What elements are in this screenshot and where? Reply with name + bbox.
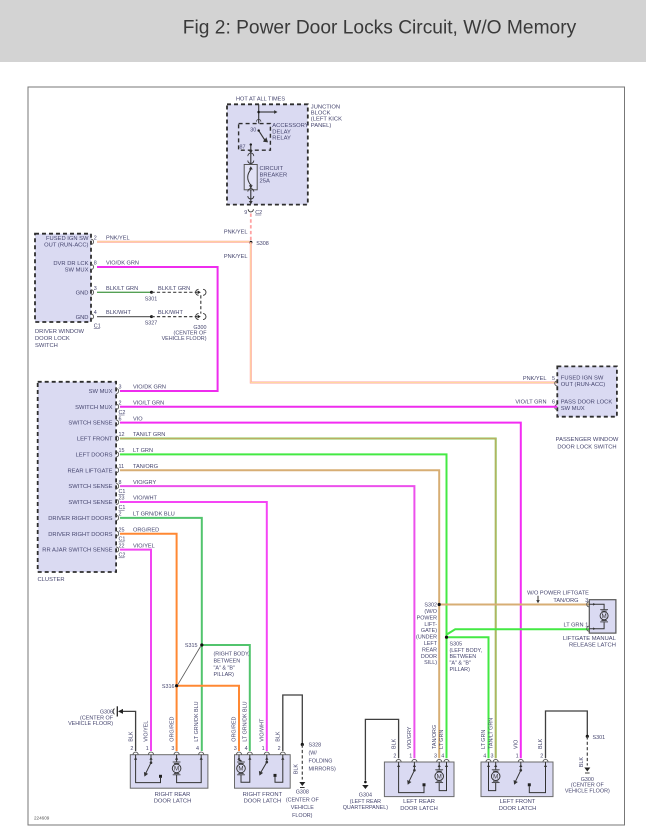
svg-text:DVR DR LCK: DVR DR LCK bbox=[53, 261, 88, 267]
svg-text:BLK: BLK bbox=[128, 731, 134, 742]
svg-text:FLOOR): FLOOR) bbox=[292, 813, 313, 819]
svg-text:4: 4 bbox=[441, 753, 444, 759]
svg-text:1: 1 bbox=[146, 746, 149, 752]
svg-text:LEFT: LEFT bbox=[424, 641, 438, 647]
svg-text:BLK: BLK bbox=[579, 757, 585, 768]
svg-text:25A: 25A bbox=[260, 179, 270, 185]
svg-text:RIGHT REAR: RIGHT REAR bbox=[155, 792, 191, 798]
svg-text:DOOR: DOOR bbox=[421, 654, 437, 660]
svg-text:BLK/LT GRN: BLK/LT GRN bbox=[158, 286, 190, 292]
svg-text:"A" & "B": "A" & "B" bbox=[450, 661, 472, 667]
svg-text:DRIVER WINDOW: DRIVER WINDOW bbox=[35, 329, 84, 335]
svg-text:(CENTER OF: (CENTER OF bbox=[286, 797, 320, 803]
svg-text:SWITCH SENSE: SWITCH SENSE bbox=[68, 484, 112, 490]
svg-text:RELEASE LATCH: RELEASE LATCH bbox=[569, 642, 616, 648]
svg-text:(UNDER: (UNDER bbox=[416, 635, 437, 641]
svg-text:23: 23 bbox=[119, 496, 125, 502]
svg-text:2: 2 bbox=[94, 235, 97, 241]
svg-text:VIO/YEL: VIO/YEL bbox=[133, 543, 155, 549]
svg-text:LIFT-: LIFT- bbox=[424, 622, 437, 628]
svg-text:VEHICLE FLOOR): VEHICLE FLOOR) bbox=[68, 721, 113, 727]
svg-text:(LEFT KICK: (LEFT KICK bbox=[311, 117, 342, 123]
svg-text:1: 1 bbox=[262, 746, 265, 752]
svg-text:4: 4 bbox=[196, 746, 199, 752]
svg-text:FOLDING: FOLDING bbox=[309, 759, 333, 765]
svg-text:DRIVER RIGHT DOORS: DRIVER RIGHT DOORS bbox=[48, 516, 112, 522]
svg-text:S301: S301 bbox=[145, 296, 158, 302]
svg-text:VEHICLE: VEHICLE bbox=[291, 805, 314, 811]
svg-text:PNK/YEL: PNK/YEL bbox=[224, 229, 248, 235]
svg-text:8: 8 bbox=[119, 480, 122, 486]
svg-text:GND: GND bbox=[76, 291, 89, 297]
svg-text:ORG/RED: ORG/RED bbox=[232, 716, 238, 741]
svg-text:11: 11 bbox=[119, 464, 125, 470]
svg-text:(W/O: (W/O bbox=[424, 609, 437, 615]
svg-text:HOT AT ALL TIMES: HOT AT ALL TIMES bbox=[236, 97, 285, 103]
svg-text:M: M bbox=[238, 766, 243, 773]
svg-text:GATE): GATE) bbox=[421, 628, 437, 634]
svg-text:3: 3 bbox=[234, 746, 237, 752]
svg-text:BLK/WHT: BLK/WHT bbox=[106, 310, 131, 316]
svg-text:BLOCK: BLOCK bbox=[311, 111, 331, 117]
svg-text:PNK/YEL: PNK/YEL bbox=[523, 376, 547, 382]
svg-text:LT GRN/DK BLU: LT GRN/DK BLU bbox=[194, 701, 200, 741]
svg-text:OUT (RUN-ACC): OUT (RUN-ACC) bbox=[561, 382, 605, 388]
svg-text:2: 2 bbox=[540, 753, 543, 759]
svg-text:VIO/GRY: VIO/GRY bbox=[133, 480, 156, 486]
svg-text:BLK: BLK bbox=[294, 764, 300, 775]
svg-text:DELAY: DELAY bbox=[272, 129, 291, 135]
svg-text:G308: G308 bbox=[296, 790, 309, 796]
svg-text:2: 2 bbox=[393, 753, 396, 759]
svg-text:(RIGHT BODY,: (RIGHT BODY, bbox=[214, 652, 251, 658]
svg-text:(LEFT REAR: (LEFT REAR bbox=[350, 799, 381, 805]
svg-text:87: 87 bbox=[240, 144, 246, 150]
svg-text:SW MUX: SW MUX bbox=[89, 389, 113, 395]
svg-text:TAN/ORG: TAN/ORG bbox=[133, 464, 158, 470]
svg-text:6: 6 bbox=[552, 400, 555, 406]
svg-text:DOOR LATCH: DOOR LATCH bbox=[244, 799, 282, 805]
svg-text:OUT (RUN-ACC): OUT (RUN-ACC) bbox=[44, 243, 88, 249]
svg-text:M: M bbox=[493, 773, 498, 780]
svg-text:TAN/ORG: TAN/ORG bbox=[553, 598, 578, 604]
svg-text:LIFTGATE MANUAL: LIFTGATE MANUAL bbox=[563, 636, 617, 642]
svg-text:12: 12 bbox=[119, 432, 125, 438]
svg-text:2: 2 bbox=[130, 746, 133, 752]
svg-text:1: 1 bbox=[516, 753, 519, 759]
svg-text:(W/: (W/ bbox=[309, 751, 318, 757]
svg-text:M: M bbox=[602, 613, 607, 620]
svg-text:3: 3 bbox=[94, 286, 97, 292]
svg-text:PASSENGER WINDOW: PASSENGER WINDOW bbox=[556, 437, 619, 443]
svg-text:QUARTERPANEL): QUARTERPANEL) bbox=[343, 805, 389, 811]
svg-text:VEHICLE FLOOR): VEHICLE FLOOR) bbox=[565, 788, 610, 794]
svg-text:ACCESSORY: ACCESSORY bbox=[272, 123, 308, 129]
svg-text:"A" & "B": "A" & "B" bbox=[214, 665, 236, 671]
svg-text:BLK: BLK bbox=[538, 738, 544, 749]
svg-text:CIRCUIT: CIRCUIT bbox=[260, 166, 284, 172]
svg-text:3: 3 bbox=[119, 385, 122, 391]
svg-text:SILL): SILL) bbox=[424, 660, 437, 666]
svg-text:SWITCH SENSE: SWITCH SENSE bbox=[68, 421, 112, 427]
svg-text:LT GRN: LT GRN bbox=[133, 448, 153, 454]
svg-text:5: 5 bbox=[552, 376, 555, 382]
svg-text:S308: S308 bbox=[256, 241, 269, 247]
svg-text:1: 1 bbox=[409, 753, 412, 759]
svg-text:4: 4 bbox=[245, 746, 248, 752]
svg-text:S315: S315 bbox=[185, 643, 198, 649]
svg-text:LEFT FRONT: LEFT FRONT bbox=[500, 799, 536, 805]
svg-text:4: 4 bbox=[483, 753, 486, 759]
svg-text:M: M bbox=[174, 766, 179, 773]
svg-text:BLK: BLK bbox=[391, 738, 397, 749]
svg-text:TAN/LT GRN: TAN/LT GRN bbox=[133, 432, 165, 438]
svg-text:JUNCTION: JUNCTION bbox=[311, 104, 340, 110]
svg-text:SW MUX: SW MUX bbox=[561, 406, 585, 412]
svg-text:(LEFT BODY,: (LEFT BODY, bbox=[450, 648, 483, 654]
svg-text:REAR LIFTGATE: REAR LIFTGATE bbox=[68, 468, 113, 474]
svg-text:VIO/GRY: VIO/GRY bbox=[407, 726, 413, 749]
svg-text:2: 2 bbox=[119, 401, 122, 407]
svg-text:PILLAR): PILLAR) bbox=[214, 672, 235, 678]
svg-text:MIRRORS): MIRRORS) bbox=[309, 767, 336, 773]
svg-text:LT GRN: LT GRN bbox=[439, 730, 445, 749]
svg-text:2: 2 bbox=[278, 746, 281, 752]
svg-text:S328: S328 bbox=[309, 743, 322, 749]
svg-text:S327: S327 bbox=[145, 320, 158, 326]
svg-text:ORG/RED: ORG/RED bbox=[133, 527, 159, 533]
svg-text:6: 6 bbox=[119, 416, 122, 422]
svg-text:2: 2 bbox=[119, 512, 122, 518]
svg-text:VIO/WHT: VIO/WHT bbox=[133, 496, 158, 502]
svg-text:PNK/YEL: PNK/YEL bbox=[106, 235, 130, 241]
svg-text:FUSED IGN SW: FUSED IGN SW bbox=[561, 376, 604, 382]
svg-text:VIO/LT GRN: VIO/LT GRN bbox=[133, 401, 164, 407]
svg-text:PILLAR): PILLAR) bbox=[450, 667, 471, 673]
svg-text:DOOR LATCH: DOOR LATCH bbox=[499, 806, 537, 812]
svg-text:VIO/DK GRN: VIO/DK GRN bbox=[133, 385, 166, 391]
svg-text:15: 15 bbox=[119, 448, 125, 454]
svg-text:SW MUX: SW MUX bbox=[65, 268, 89, 274]
svg-text:PNK/YEL: PNK/YEL bbox=[224, 254, 248, 260]
svg-text:BETWEEN: BETWEEN bbox=[214, 658, 241, 664]
svg-text:TAN/LT GRN: TAN/LT GRN bbox=[488, 718, 494, 749]
svg-text:LT GRN: LT GRN bbox=[564, 623, 584, 629]
svg-text:30: 30 bbox=[250, 127, 256, 133]
svg-text:DOOR LOCK SWITCH: DOOR LOCK SWITCH bbox=[557, 444, 616, 450]
svg-text:REAR: REAR bbox=[422, 647, 437, 653]
svg-text:25: 25 bbox=[119, 527, 125, 533]
svg-text:DOOR LATCH: DOOR LATCH bbox=[400, 806, 438, 812]
svg-text:VIO/DK GRN: VIO/DK GRN bbox=[106, 261, 139, 267]
svg-text:LT GRN/DK BLU: LT GRN/DK BLU bbox=[243, 701, 249, 741]
svg-text:RELAY: RELAY bbox=[272, 136, 291, 142]
svg-text:VIO/WHT: VIO/WHT bbox=[260, 718, 266, 742]
svg-text:W/O POWER LIFTGATE: W/O POWER LIFTGATE bbox=[527, 590, 589, 596]
svg-text:3: 3 bbox=[434, 753, 437, 759]
svg-text:S316: S316 bbox=[162, 684, 175, 690]
svg-text:S301: S301 bbox=[593, 735, 606, 741]
svg-text:9: 9 bbox=[244, 210, 247, 216]
svg-text:BLK/LT GRN: BLK/LT GRN bbox=[106, 286, 138, 292]
svg-text:LT GRN: LT GRN bbox=[481, 730, 487, 749]
svg-text:VEHICLE FLOOR): VEHICLE FLOOR) bbox=[162, 336, 207, 342]
svg-text:22: 22 bbox=[119, 543, 125, 549]
svg-text:PASS DOOR LOCK: PASS DOOR LOCK bbox=[561, 399, 613, 405]
svg-text:BETWEEN: BETWEEN bbox=[450, 654, 477, 660]
svg-text:SWITCH MUX: SWITCH MUX bbox=[75, 405, 112, 411]
svg-text:DOOR LOCK: DOOR LOCK bbox=[35, 336, 70, 342]
svg-text:M: M bbox=[437, 773, 442, 780]
svg-text:GND: GND bbox=[76, 315, 89, 321]
svg-text:S302: S302 bbox=[424, 603, 437, 609]
svg-text:224609: 224609 bbox=[34, 816, 50, 821]
svg-text:FUSED IGN SW: FUSED IGN SW bbox=[46, 236, 89, 242]
svg-text:PANEL): PANEL) bbox=[311, 123, 332, 129]
svg-text:3: 3 bbox=[171, 746, 174, 752]
svg-text:POWER: POWER bbox=[417, 615, 437, 621]
svg-text:8: 8 bbox=[94, 261, 97, 267]
svg-text:ORG/RED: ORG/RED bbox=[169, 716, 175, 741]
svg-text:LEFT FRONT: LEFT FRONT bbox=[77, 437, 113, 443]
svg-text:DRIVER RIGHT DOORS: DRIVER RIGHT DOORS bbox=[48, 532, 112, 538]
svg-text:G304: G304 bbox=[359, 793, 372, 799]
svg-text:LEFT REAR: LEFT REAR bbox=[403, 799, 435, 805]
svg-text:SWITCH SENSE: SWITCH SENSE bbox=[68, 500, 112, 506]
svg-text:DOOR LATCH: DOOR LATCH bbox=[154, 799, 192, 805]
svg-text:RIGHT FRONT: RIGHT FRONT bbox=[243, 792, 283, 798]
svg-text:Fig 2: Power Door Locks Circui: Fig 2: Power Door Locks Circuit, W/O Mem… bbox=[183, 17, 577, 38]
svg-text:RR AJAR SWITCH SENSE: RR AJAR SWITCH SENSE bbox=[42, 548, 112, 554]
svg-text:CLUSTER: CLUSTER bbox=[38, 577, 65, 583]
svg-text:3: 3 bbox=[491, 753, 494, 759]
svg-text:VIO/LT GRN: VIO/LT GRN bbox=[515, 400, 546, 406]
svg-text:VIO: VIO bbox=[133, 416, 143, 422]
svg-text:BLK/WHT: BLK/WHT bbox=[158, 310, 183, 316]
svg-text:BREAKER: BREAKER bbox=[260, 172, 288, 178]
svg-text:LEFT DOORS: LEFT DOORS bbox=[76, 453, 113, 459]
svg-text:S305: S305 bbox=[450, 641, 463, 647]
svg-text:SWITCH: SWITCH bbox=[35, 343, 58, 349]
svg-text:4: 4 bbox=[94, 310, 97, 316]
svg-text:VIO/YEL: VIO/YEL bbox=[144, 721, 150, 742]
svg-text:VIO: VIO bbox=[514, 740, 520, 749]
svg-text:LT GRN/DK BLU: LT GRN/DK BLU bbox=[133, 512, 175, 518]
svg-text:TAN/ORG: TAN/ORG bbox=[432, 725, 438, 749]
svg-text:BLK: BLK bbox=[276, 731, 282, 742]
